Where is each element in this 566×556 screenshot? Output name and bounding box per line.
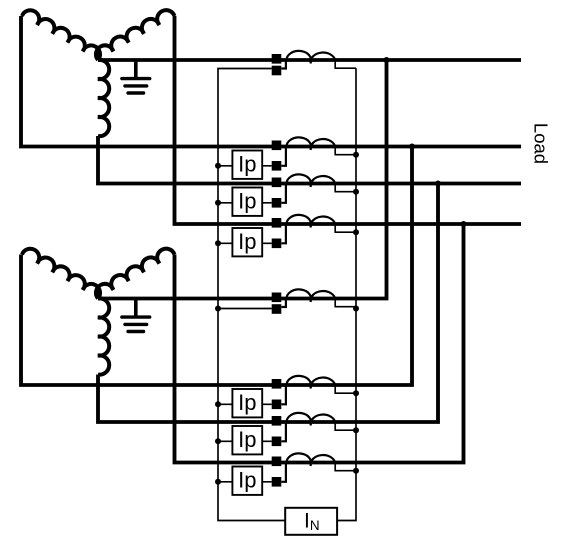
transformer T2 winding left <box>22 249 100 299</box>
wire T2 neutral line L5 tie to L1 <box>98 60 387 299</box>
junction right bus CT on L2 <box>353 152 359 158</box>
junction right bus CT on L8 <box>353 468 359 474</box>
junction left bus to Ip1 <box>215 163 221 169</box>
CT CT2 (T1 phase a) secondary winding <box>281 137 335 165</box>
relay Ip3 box <box>232 228 262 256</box>
transformer T2 winding center <box>98 298 109 374</box>
CT CT1 (T1 neutral) wire to right summation bus <box>335 60 356 68</box>
ground T2 neutral earth <box>134 299 138 318</box>
wire relay Ip6 connections <box>218 481 272 483</box>
junction right bus CT on L4 <box>353 229 359 235</box>
transformer T2 winding right <box>96 249 175 299</box>
wire relay Ip5 connections <box>218 440 272 442</box>
relay Ip6 box <box>232 467 262 495</box>
junction tie bar on line b <box>435 181 441 187</box>
CT CT6 (T2 phase a) primary-side terminal square <box>272 379 282 389</box>
CT CT7 (T2 phase b) secondary terminal square <box>272 437 282 447</box>
relay IN box <box>285 508 337 535</box>
CT CT3 (T1 phase b) secondary terminal square <box>272 198 282 208</box>
junction tie bar on line N <box>384 57 390 63</box>
CT CT1 (T1 neutral) primary-side terminal square <box>272 54 282 64</box>
svg-text:Ip: Ip <box>238 390 256 415</box>
junction left bus CT5 <box>215 306 221 312</box>
CT CT2 (T1 phase a) primary-side terminal square <box>272 141 282 151</box>
wire T1 center winding to line L3 <box>98 136 521 184</box>
junction tie bar on line c <box>461 221 467 227</box>
CT CT1 (T1 neutral) secondary winding <box>281 51 335 69</box>
CT CT4 (T1 phase c) secondary winding <box>281 215 335 243</box>
wire T1 left winding to line L2 <box>21 16 521 147</box>
junction right bus CT on L7 <box>353 427 359 433</box>
CT CT6 (T2 phase a) secondary winding <box>281 376 335 404</box>
svg-text:Ip: Ip <box>238 427 256 452</box>
CT CT5 (T2 neutral) secondary terminal square <box>272 304 282 314</box>
CT CT7 (T2 phase b) secondary winding <box>281 413 335 441</box>
svg-text:Load: Load <box>531 123 552 164</box>
junction right bus CT on L3 <box>353 189 359 195</box>
CT CT5 (T2 neutral) secondary winding <box>281 289 335 307</box>
wire relay Ip4 connections <box>218 403 272 405</box>
CT CT7 (T2 phase b) wire to right summation bus <box>335 422 356 430</box>
CT CT8 (T2 phase c) wire to right summation bus <box>335 463 356 471</box>
junction right bus CT5 <box>353 306 359 312</box>
relay Ip2 box <box>232 188 262 216</box>
ground T1 neutral earth <box>134 60 138 79</box>
junction left bus to Ip3 <box>215 240 221 246</box>
wire left summation bus <box>218 69 285 521</box>
relay Ip1 box <box>232 151 262 179</box>
junction left bus to Ip2 <box>215 200 221 206</box>
CT CT7 (T2 phase b) primary-side terminal square <box>272 416 282 426</box>
junction left bus to Ip4 <box>215 401 221 407</box>
CT CT8 (T2 phase c) secondary winding <box>281 453 335 481</box>
transformer T1 winding left <box>22 10 100 60</box>
CT CT3 (T1 phase b) wire to right summation bus <box>335 184 356 192</box>
transformer T1 winding right <box>96 10 175 60</box>
CT CT1 (T1 neutral) secondary terminal square <box>272 66 282 76</box>
CT CT8 (T2 phase c) primary-side terminal square <box>272 457 282 467</box>
CT CT2 (T1 phase a) wire to right summation bus <box>335 147 356 155</box>
relay Ip5 box <box>232 426 262 454</box>
svg-text:Ip: Ip <box>238 152 256 177</box>
wire T2 center winding line L7 tie to L3 <box>98 184 438 423</box>
transformer T1 winding center <box>98 60 109 136</box>
svg-text:Ip: Ip <box>238 189 256 214</box>
CT CT4 (T1 phase c) primary-side terminal square <box>272 218 282 228</box>
wire relay Ip2 connections <box>218 202 272 204</box>
CT CT4 (T1 phase c) secondary terminal square <box>272 239 282 249</box>
CT CT2 (T1 phase a) secondary terminal square <box>272 161 282 171</box>
CT CT4 (T1 phase c) wire to right summation bus <box>335 224 356 232</box>
relay Ip4 box <box>232 389 262 417</box>
wire relay Ip3 connections <box>218 242 272 244</box>
CT CT6 (T2 phase a) secondary terminal square <box>272 400 282 410</box>
wire T1 right winding to line L4 <box>175 16 522 224</box>
wire CT5 secondary to left bus <box>218 308 272 310</box>
wire right summation bus <box>337 68 356 520</box>
junction tie bar on line a <box>409 144 415 150</box>
CT CT5 (T2 neutral) wire to right summation bus <box>335 299 356 307</box>
svg-text:Ip: Ip <box>238 468 256 493</box>
junction left bus to Ip6 <box>215 479 221 485</box>
CT CT3 (T1 phase b) primary-side terminal square <box>272 178 282 188</box>
CT CT3 (T1 phase b) secondary winding <box>281 174 335 202</box>
CT CT8 (T2 phase c) secondary terminal square <box>272 477 282 487</box>
svg-text:Ip: Ip <box>238 229 256 254</box>
CT CT6 (T2 phase a) wire to right summation bus <box>335 385 356 393</box>
CT CT5 (T2 neutral) primary-side terminal square <box>272 293 282 303</box>
wire T2 right winding line L8 tie to L4 <box>175 224 464 463</box>
wire T1 neutral line L1 to load <box>98 58 521 62</box>
junction left bus to Ip5 <box>215 438 221 444</box>
wire T2 left winding line L6 tie to L2 <box>21 147 412 386</box>
junction right bus CT on L6 <box>353 390 359 396</box>
wire relay Ip1 connections <box>218 165 272 167</box>
